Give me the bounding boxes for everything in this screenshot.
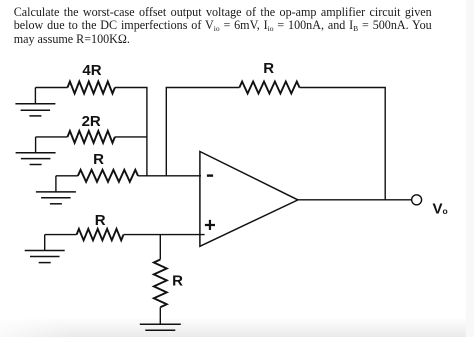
svg-text:R: R — [263, 60, 274, 77]
svg-text:Vo: Vo — [433, 200, 448, 217]
svg-text:R: R — [93, 151, 104, 168]
svg-text:R: R — [95, 212, 106, 229]
svg-text:4R: 4R — [82, 62, 101, 79]
svg-text:2R: 2R — [82, 113, 101, 130]
svg-text:R: R — [172, 273, 183, 290]
